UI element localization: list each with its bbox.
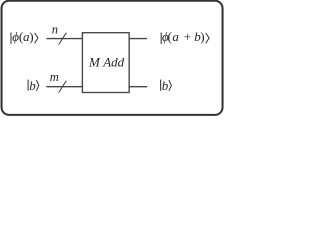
svg-text:MAdd: MAdd xyxy=(88,55,125,70)
node |phi(a)> label xyxy=(11,29,38,44)
bus slash bottom xyxy=(59,81,67,93)
node |b> label right xyxy=(161,78,172,93)
svg-text:b: b xyxy=(162,78,169,93)
svg-text:b: b xyxy=(29,78,36,93)
wire top-left xyxy=(46,38,82,40)
svg-text:ϕ(a+b): ϕ(a+b) xyxy=(162,29,205,44)
svg-text:m: m xyxy=(50,70,59,84)
svg-text:n: n xyxy=(52,23,58,37)
bus slash top xyxy=(59,33,67,45)
node |b> label left xyxy=(28,78,39,93)
svg-text:ϕ(a): ϕ(a) xyxy=(12,29,33,44)
node |phi(a+b)> label xyxy=(161,29,209,44)
wire bottom-right xyxy=(129,86,147,88)
wire top-right xyxy=(129,38,147,40)
gate box MAdd xyxy=(82,33,129,93)
wire bottom-left xyxy=(46,86,82,88)
